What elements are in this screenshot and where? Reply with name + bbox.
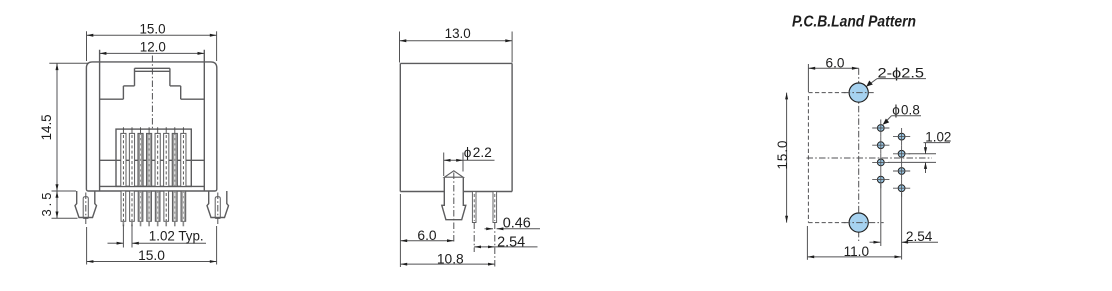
dimension 6.0 (land)	[808, 56, 858, 92]
side view: snap peg	[442, 171, 466, 244]
front view: left board lock	[75, 191, 97, 225]
dimension 10.8 (side)	[400, 251, 494, 266]
dimension 15.0 bottom (front)	[87, 226, 217, 265]
land pattern: pin hole B1 (0.8mm)	[893, 128, 910, 145]
svg-text:2-ϕ2.5: 2-ϕ2.5	[878, 65, 925, 80]
front view: vertical centerline	[151, 56, 153, 129]
svg-text:6.0: 6.0	[826, 56, 845, 71]
svg-text:11.0: 11.0	[844, 244, 870, 259]
dimension 6.0 (side)	[400, 194, 453, 267]
front view: pin 3	[138, 127, 143, 226]
side view: body outline	[400, 63, 512, 191]
dimension 15.0 top (front)	[87, 21, 217, 61]
land pattern: dashed top edge	[808, 92, 846, 94]
svg-text:15.0: 15.0	[139, 21, 165, 36]
dimension 15.0 (land)	[775, 93, 790, 223]
land pattern: pin hole A1 (0.8mm)	[872, 119, 889, 136]
svg-text:14.5: 14.5	[39, 114, 54, 140]
label 2-phi2.5 (land)	[866, 65, 926, 86]
land pattern title	[792, 13, 916, 30]
svg-text:6.0: 6.0	[417, 228, 437, 243]
land pattern: pin hole A2 (0.8mm)	[872, 137, 889, 154]
side view: pin 1	[472, 192, 476, 253]
dimension phi 2.2 (side)	[444, 145, 495, 176]
side view: pin 2	[493, 192, 497, 267]
dimension 13.0 (side)	[400, 26, 513, 63]
svg-text:10.8: 10.8	[437, 251, 464, 266]
svg-text:15.0: 15.0	[138, 248, 165, 263]
front view: pin 7	[172, 127, 177, 226]
land pattern: mounting hole bottom (2.5mm)	[844, 213, 884, 232]
land pattern: column B extension line	[901, 193, 903, 260]
front view: pin 4	[147, 127, 152, 226]
svg-text:2.54: 2.54	[497, 234, 525, 250]
front view: latch step profile	[100, 68, 205, 99]
front view: pin 6	[164, 127, 169, 226]
svg-text:3.5: 3.5	[39, 193, 54, 217]
land pattern: mounting hole top (2.5mm)	[844, 83, 874, 102]
label phi0.8 (land)	[883, 103, 921, 125]
svg-text:P.C.B.Land Pattern: P.C.B.Land Pattern	[792, 13, 916, 30]
dimension 2.54 (land)	[870, 229, 939, 244]
front view: opening left wall	[99, 50, 101, 191]
land pattern: pin hole A3 (0.8mm)	[872, 154, 889, 171]
land pattern: column A extension line	[880, 184, 882, 246]
svg-text:12.0: 12.0	[140, 39, 166, 54]
land pattern: pin hole B4 (0.8mm)	[893, 180, 910, 197]
dimension 0.46 (side)	[485, 216, 541, 232]
front view: opening right wall	[203, 50, 205, 191]
dimension 11.0 (land)	[807, 226, 901, 260]
svg-text:ϕ 2.2: ϕ 2.2	[464, 145, 492, 160]
svg-text:0.46: 0.46	[503, 216, 531, 232]
front view: right board lock	[207, 191, 229, 225]
land pattern: horizontal centerline	[807, 157, 933, 159]
land pattern: dashed bottom edge	[808, 222, 846, 224]
svg-text:15.0: 15.0	[775, 141, 790, 170]
front view: pin 2	[129, 127, 134, 226]
dimension 2.54 (side)	[474, 234, 537, 250]
land pattern: pin hole A4 (0.8mm)	[872, 171, 889, 188]
land pattern: dashed left edge	[807, 96, 809, 223]
front view: pin 8	[181, 127, 186, 226]
front view: aperture bottom line	[100, 159, 205, 161]
front view: pin block	[116, 129, 191, 186]
front view: connector body outline	[86, 62, 216, 191]
dimension 1.02 Typ. (front)	[108, 225, 207, 248]
front view: pin 1	[121, 127, 126, 226]
land pattern: vertical centerline	[858, 68, 860, 241]
dimension 3.5 (front)	[39, 191, 78, 218]
svg-text:2.54: 2.54	[906, 229, 933, 244]
dimension 12.0 (front)	[100, 39, 205, 55]
dimension 1.02 (land)	[888, 130, 951, 173]
svg-text:13.0: 13.0	[445, 26, 471, 41]
dimension 14.5 (front)	[39, 63, 89, 191]
land pattern: pin hole B2 (0.8mm)	[893, 145, 910, 162]
svg-text:1.02 Typ.: 1.02 Typ.	[149, 229, 204, 244]
front view: pin 5	[155, 127, 160, 226]
land pattern: pin hole B3 (0.8mm)	[893, 162, 910, 179]
front view: shelf line	[100, 185, 205, 187]
